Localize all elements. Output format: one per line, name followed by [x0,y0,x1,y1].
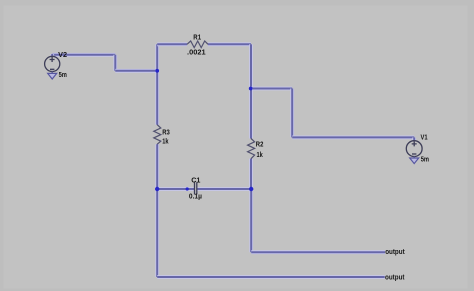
resistor R3 [154,125,161,145]
wire output2 vertical [155,189,159,277]
wire output2 horizontal [157,275,385,279]
svg-text:output: output [385,247,405,256]
svg-text:0.1µ: 0.1µ [189,192,202,201]
wire C1 left lead [157,187,194,191]
node C1 left pin dot [186,187,189,190]
svg-text:C1: C1 [191,175,200,184]
wire from V2 to bend [52,53,115,57]
voltage source V2 [45,56,60,71]
svg-text:R2: R2 [256,140,264,149]
wire output1 horizontal [251,250,385,254]
svg-text:5m: 5m [421,155,429,164]
label V1 [421,132,428,141]
svg-text:5m: 5m [59,70,67,79]
wire into node A [115,69,157,73]
wire C1 right lead [197,187,251,191]
svg-text:R1: R1 [193,33,201,42]
label R3 [162,128,170,137]
ground below V2 [48,72,57,80]
svg-text:output: output [385,272,405,281]
wire R1 right lead [208,42,251,46]
label R1 [193,33,201,42]
label C1 [191,175,200,184]
wire V2 top stub [50,54,54,56]
capacitor C1 [195,182,197,194]
svg-text:V2: V2 [58,50,67,59]
label R2 [256,140,264,149]
wire R2 top lead [249,89,253,139]
label output upper [385,247,405,256]
value 5m of V2 [59,70,67,79]
wire R2 bottom lead [249,159,253,189]
svg-text:.0021: .0021 [187,48,206,57]
wire output1 vertical [249,189,253,252]
wire V1 top stub [412,137,416,141]
wire vertical toward V1 [290,89,294,138]
label V2 [58,50,67,59]
value 1k of R2 [257,150,263,159]
resistor R2 [248,139,255,159]
wire R1 right vertical down [249,44,253,88]
wire R1 left lead [157,42,187,46]
wire R3 bottom lead [155,144,159,189]
value 1k of R3 [162,136,168,145]
wire left rail vertical to R3 [155,44,159,124]
node junction at R1/R2 [249,87,253,91]
value 0.1u of C1 [189,192,202,201]
voltage source V1 [406,141,422,157]
wire vertical bend segment [113,55,117,71]
node junction at left rail top [155,69,159,73]
svg-text:V1: V1 [421,132,428,141]
resistor R1 [187,41,208,48]
wire horizontal to V1 [292,135,414,139]
value 5m of V1 [421,155,429,164]
wire node B to right [251,87,292,91]
svg-text:1k: 1k [257,150,263,159]
node junction right of C1 [249,187,253,191]
ground below V1 [410,156,419,163]
label output lower [385,272,405,281]
svg-text:1k: 1k [162,136,168,145]
node junction left of C1 [155,187,159,191]
value .0021 of R1 [187,48,206,57]
